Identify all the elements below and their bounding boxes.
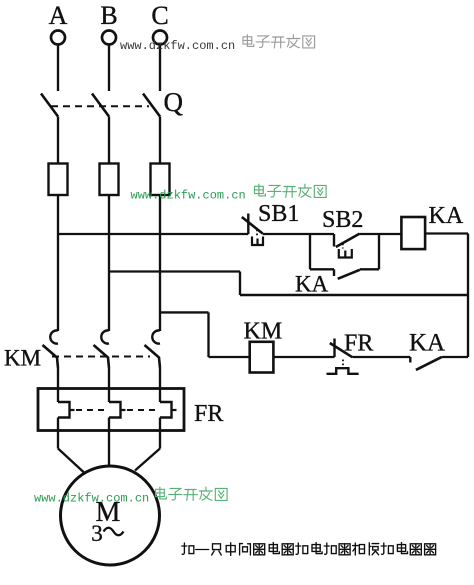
svg-text:KM: KM: [4, 346, 41, 371]
thermal relay FR label: [194, 401, 223, 427]
wire bottom rail: [240, 294, 468, 297]
svg-text:FR: FR: [344, 331, 373, 357]
wire SB2 to KA coil: [360, 233, 402, 235]
thermal relay FR heater B: [109, 402, 126, 418]
terminal A circle: [51, 31, 65, 45]
wire C below FR: [159, 418, 161, 449]
motor M circle: [61, 466, 160, 565]
svg-text:KM: KM: [244, 319, 283, 345]
contactor KM main contact B: [94, 330, 110, 368]
terminal B circle: [102, 31, 116, 45]
switch Q pole B blade: [92, 94, 109, 117]
svg-text:SB1: SB1: [258, 201, 299, 227]
wire FU1 fuse to contactor: [57, 195, 59, 331]
pushbutton SB2 (NO start): [334, 234, 360, 258]
motor label 3~: [91, 521, 123, 546]
watermark text (motor): [34, 487, 227, 505]
wire phase B rail: [109, 272, 240, 296]
svg-text:FR: FR: [194, 401, 223, 427]
svg-text:B: B: [100, 1, 117, 30]
wire self-hold branch right: [360, 234, 379, 269]
wire FU2 fuse to contactor: [108, 195, 110, 331]
wire phase C tap: [160, 312, 250, 357]
wire FR contact to KA contact: [352, 356, 410, 358]
contactor KM label: [4, 346, 41, 371]
wire A below FR: [57, 418, 59, 449]
svg-text:www.dzkfw.com.cn: www.dzkfw.com.cn: [131, 189, 246, 203]
thermal relay FR heater A: [58, 402, 75, 418]
contactor KM main contact A: [43, 330, 59, 368]
wire phase A to SB1: [58, 233, 248, 235]
switch Q pole A blade: [41, 94, 58, 117]
wire A switch to fuse: [57, 117, 59, 164]
thermal relay FR contact (NC): [327, 339, 359, 374]
fuse FU3: [151, 164, 170, 196]
switch Q pole C blade: [143, 94, 160, 117]
pushbutton SB1 label: [258, 201, 299, 227]
fuse FU2: [100, 164, 119, 196]
terminal label A: [49, 1, 68, 30]
relay contact KA label (lower): [409, 330, 445, 357]
wire B below FR: [108, 418, 110, 468]
thermal relay FR linkage (dashed): [76, 409, 157, 411]
wire FU3 fuse to contactor: [159, 195, 161, 331]
relay KA coil: [401, 217, 425, 249]
wire B switch to fuse: [108, 117, 110, 164]
wire A terminal to switch: [57, 45, 59, 91]
contactor KM coil label: [244, 319, 283, 345]
contactor KM main contact C: [145, 330, 161, 368]
thermal relay FR heater C: [160, 402, 177, 418]
wire KA contact to right bus: [442, 356, 468, 358]
caption text: [182, 543, 436, 556]
pushbutton SB2 label: [322, 207, 363, 233]
wire A contactor to FR: [57, 368, 59, 402]
terminal label B: [100, 1, 117, 30]
svg-text:C: C: [151, 1, 168, 30]
svg-text:KA: KA: [295, 272, 329, 297]
svg-text:www.dzkfw.com.cn: www.dzkfw.com.cn: [120, 39, 235, 53]
svg-text:SB2: SB2: [322, 207, 363, 233]
wire C contactor to FR: [159, 368, 161, 402]
thermal relay FR box: [38, 389, 184, 431]
watermark text (middle): [131, 184, 327, 202]
svg-text:3: 3: [91, 521, 103, 546]
fuse FU1: [49, 164, 68, 196]
switch Q linkage (dashed): [51, 105, 149, 107]
pushbutton SB1 (NC stop): [242, 214, 263, 246]
wire self-hold branch left: [310, 234, 334, 269]
wire B contactor to FR: [108, 368, 110, 402]
relay KA coil label: [429, 203, 464, 229]
svg-text:KA: KA: [409, 330, 445, 357]
wire KA coil to right bus: [425, 232, 468, 234]
terminal label C: [151, 1, 168, 30]
wire right bus: [467, 234, 469, 358]
svg-text:A: A: [49, 1, 68, 30]
contactor KM linkage (dashed): [52, 356, 150, 358]
wire SB1 to SB2: [263, 233, 334, 235]
relay contact KA label: [295, 272, 329, 297]
wire KM coil to FR contact: [273, 356, 334, 358]
contactor KM coil: [250, 342, 274, 373]
relay contact KA (NO, in KM circuit): [410, 357, 441, 370]
svg-text:www.dzkfw.com.cn: www.dzkfw.com.cn: [34, 492, 149, 506]
motor label M: [96, 497, 121, 528]
svg-text:Q: Q: [164, 87, 184, 117]
wire A to motor: [58, 449, 84, 473]
svg-text:KA: KA: [429, 203, 464, 229]
wire B terminal to switch: [108, 45, 110, 91]
watermark text (top): [120, 35, 315, 53]
wire C switch to fuse: [159, 117, 161, 164]
relay contact KA (self-hold, NO): [334, 269, 360, 279]
thermal relay FR contact label: [344, 331, 373, 357]
terminal C circle: [153, 31, 167, 45]
wire C terminal to switch: [159, 45, 161, 91]
wire C to motor: [135, 449, 160, 471]
switch Q label: [164, 87, 184, 117]
